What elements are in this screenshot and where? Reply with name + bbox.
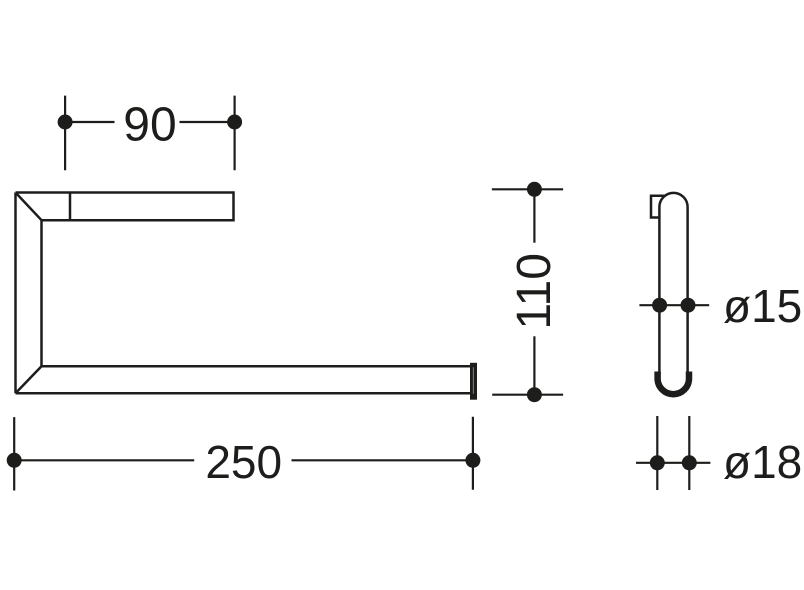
svg-text:250: 250 (205, 436, 282, 488)
svg-text:ø15: ø15 (723, 280, 802, 332)
svg-text:110: 110 (508, 253, 561, 330)
svg-text:ø18: ø18 (723, 436, 802, 488)
svg-text:90: 90 (123, 99, 176, 152)
